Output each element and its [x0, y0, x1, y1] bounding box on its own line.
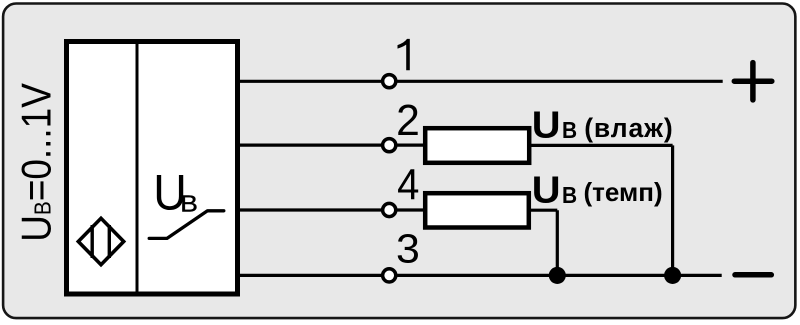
- pin number 2: [396, 97, 420, 145]
- svg-text:В: В: [180, 192, 198, 217]
- svg-text:U: U: [532, 169, 561, 211]
- junction dot node V: [664, 267, 681, 284]
- terminal circle pin 4: [383, 203, 396, 216]
- svg-text:(темп): (темп): [584, 177, 663, 207]
- wire node down (влаж): [671, 145, 674, 275]
- label Uв (inside box): [153, 165, 198, 221]
- svg-text:В: В: [562, 117, 577, 143]
- svg-text:UВ=0...1V: UВ=0...1V: [14, 82, 60, 241]
- pin number 1: [398, 39, 410, 70]
- sensor symbol (rhombus): [78, 218, 123, 264]
- wire pin4 to resistor R2: [397, 208, 426, 211]
- minus terminal: [735, 272, 771, 278]
- wire R2 to node: [529, 209, 558, 212]
- svg-text:В: В: [562, 182, 577, 208]
- wire pin4 from box: [237, 208, 381, 211]
- terminal circle pin 3: [383, 269, 396, 282]
- svg-text:3: 3: [396, 226, 420, 272]
- svg-text:2: 2: [396, 97, 420, 145]
- wire pin1 to plus: [397, 80, 723, 83]
- wire pin1 from box: [237, 80, 381, 83]
- svg-text:U: U: [532, 104, 561, 146]
- terminal circle pin 1: [383, 75, 396, 88]
- wire pin3 from box: [237, 274, 381, 277]
- wire node down (темп): [556, 210, 559, 275]
- junction dot node T: [549, 267, 566, 284]
- wire pin3 to minus: [397, 274, 722, 277]
- wire pin2 from box: [237, 144, 381, 147]
- terminal circle pin 2: [383, 139, 396, 152]
- switch S1: [149, 211, 224, 239]
- pin number 3: [396, 226, 420, 272]
- pin number 4: [397, 160, 419, 209]
- svg-text:(влаж): (влаж): [584, 113, 673, 143]
- resistor R2: [425, 193, 529, 227]
- label Uв (темп): [532, 169, 663, 211]
- sensor body: [67, 42, 238, 295]
- resistor R1: [425, 128, 529, 163]
- label Uв=0...1V: [14, 82, 60, 241]
- plus terminal: [734, 63, 772, 100]
- wire pin2 to resistor R1: [397, 144, 426, 147]
- label Uв (влаж): [532, 104, 674, 146]
- wire R1 to node: [529, 144, 673, 147]
- svg-text:4: 4: [397, 160, 419, 209]
